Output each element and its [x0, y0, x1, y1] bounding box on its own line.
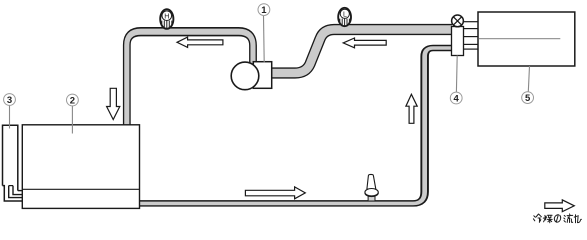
legend text refrigerant flow (kanji drawn as paths: 冷媒の流れ) [533, 214, 581, 223]
label 4 leader [455, 56, 458, 93]
wire liquid pipe (condenser to expansion valve) [138, 48, 452, 203]
flow arrow right (bottom, on liquid pipe) [245, 187, 305, 199]
label 4 [450, 92, 462, 105]
expansion valve 4 block [452, 27, 464, 56]
receiver tank 3 bottom elbow pipes [3, 186, 23, 201]
flow arrow up (to expansion valve) [406, 94, 417, 123]
label 1 [258, 4, 270, 17]
wire discharge pipe (compressor to condenser) [127, 32, 253, 126]
expansion valve to evaporator stub lines [463, 22, 479, 49]
pressure switch H [160, 9, 173, 29]
label 2 leader [71, 106, 73, 134]
svg-text:1: 1 [261, 5, 267, 16]
compressor U1 body rect [253, 62, 271, 89]
svg-text:L: L [343, 11, 347, 18]
svg-text:4: 4 [454, 94, 460, 105]
label 5 leader [528, 66, 529, 92]
label 3 leader [9, 105, 11, 129]
svg-text:5: 5 [525, 93, 531, 104]
label 5 [522, 92, 534, 105]
flow arrow left (top-left, on discharge pipe) [177, 37, 223, 47]
expansion valve 4 circle-X service port [452, 15, 464, 27]
wire suction pipe (evaporator valve to compressor, S-curve) [271, 30, 452, 74]
label 2 [67, 94, 79, 107]
label 1 leader [263, 16, 266, 62]
receiver tank 3 outline [3, 125, 18, 190]
svg-text:3: 3 [7, 95, 12, 106]
svg-text:2: 2 [70, 96, 75, 107]
pressure switch L [338, 8, 351, 26]
svg-text:H: H [164, 11, 169, 20]
sight glass on liquid pipe [365, 174, 378, 200]
condenser box 2 [22, 125, 139, 209]
flow arrow left (top-right, on suction pipe) [343, 38, 386, 48]
legend flow arrow [545, 200, 575, 212]
flow arrow down (into condenser) [107, 88, 120, 119]
label 3 [4, 94, 16, 107]
evaporator box 5 [478, 12, 575, 66]
compressor U1 pulley circle [231, 62, 259, 90]
